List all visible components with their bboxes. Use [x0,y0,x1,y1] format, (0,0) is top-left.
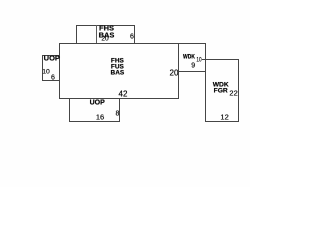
bottom porch height dimension 8 [116,111,120,118]
FGR box bottom [205,121,239,122]
top box left [76,25,77,43]
top box width dimension 20 [101,35,108,42]
FGR box top [202,59,239,60]
garage area label FGR [214,88,228,95]
top box height dimension 6 [130,34,134,41]
bottom porch width dimension 16 [96,113,104,122]
garage height dimension 22 [229,88,237,97]
top box divider [96,25,97,43]
main box area label FUS [111,64,124,71]
left UOP box bottom [42,80,60,81]
small deck width dimension 9 [191,62,195,69]
main box width dimension 42 [119,90,128,99]
main box right [178,43,179,98]
main box bottom [59,98,179,99]
main box left [59,43,60,98]
main box top [59,43,206,44]
top box FHS/BAS outline top [76,25,135,26]
FGR box right [238,59,239,122]
garage width dimension 12 [220,112,228,121]
top box area label BAS [99,31,115,40]
main box height dimension 20 [170,68,179,77]
WDK box bottom [178,71,206,72]
small deck area label WDK [183,53,195,60]
main box area label FHS [111,58,124,65]
small deck height dimension 10 [197,56,202,63]
left porch area label UOP [44,54,60,63]
bottom porch area label UOP [90,100,105,107]
main box area label BAS [111,69,125,76]
left porch height dimension 10 [42,68,50,75]
bottom UOP box bottom [69,121,120,122]
garage area label WDK [213,82,229,89]
WDK box right / FGR left vertical [205,43,206,122]
left UOP box left [42,55,43,81]
bottom UOP box left [69,98,70,121]
bottom UOP box right [119,98,120,121]
top box right [134,25,135,43]
top box area label FHS [99,23,114,32]
left porch width dimension 6 [51,74,55,81]
left UOP box top [42,55,59,56]
